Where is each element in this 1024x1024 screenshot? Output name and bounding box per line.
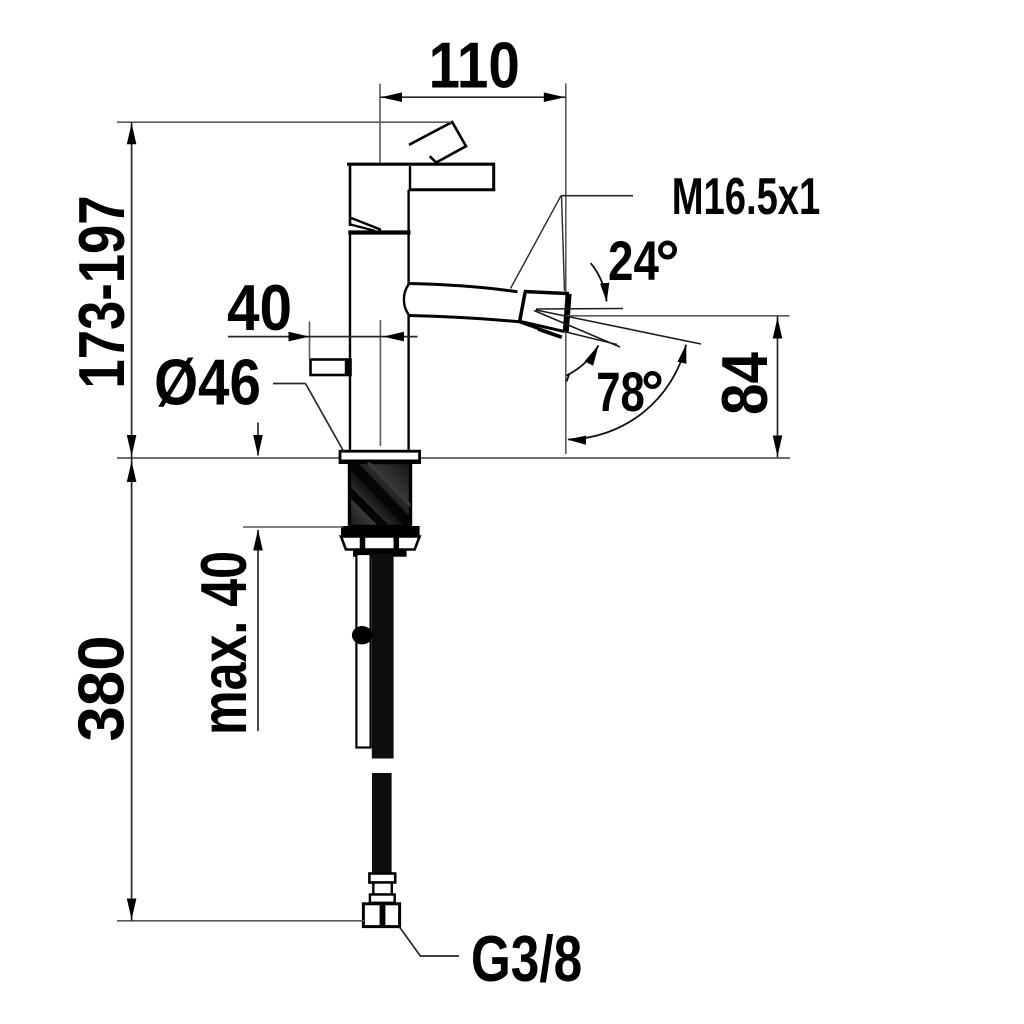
svg-text:Ø46: Ø46: [154, 346, 261, 419]
svg-text:380: 380: [65, 635, 138, 741]
svg-text:24: 24: [608, 230, 659, 292]
svg-text:max. 40: max. 40: [188, 551, 261, 735]
svg-text:110: 110: [429, 29, 520, 102]
svg-text:78: 78: [596, 361, 645, 423]
svg-text:G3/8: G3/8: [471, 923, 582, 995]
svg-text:40: 40: [227, 272, 292, 345]
svg-text:173-197: 173-197: [65, 195, 139, 388]
svg-text:84: 84: [708, 352, 781, 415]
svg-text:M16.5x1: M16.5x1: [672, 167, 821, 225]
